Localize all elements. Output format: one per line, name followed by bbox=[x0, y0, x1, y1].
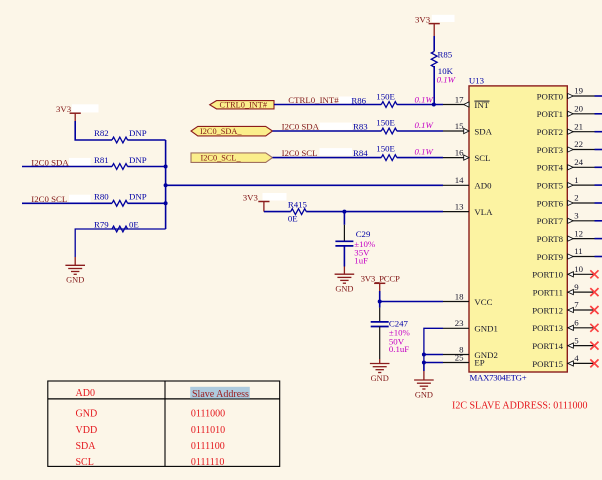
no-ERC X PORT14 bbox=[590, 342, 598, 350]
wire 3V3 to R415 bbox=[264, 211, 291, 213]
wire PORT5 bbox=[595, 184, 602, 186]
svg-text:2: 2 bbox=[574, 193, 578, 203]
pin 9 PORT11 bbox=[567, 291, 594, 293]
pin 19 PORT0 bbox=[567, 95, 594, 97]
wire PCCP to VCC bbox=[379, 291, 381, 302]
table slave address bbox=[48, 381, 280, 466]
svg-text:AD0: AD0 bbox=[474, 181, 492, 191]
wire R82 to bus bbox=[128, 139, 166, 141]
junction C29 bbox=[342, 210, 346, 214]
pin 16 SCL bbox=[443, 157, 469, 159]
svg-text:SCL: SCL bbox=[474, 153, 490, 163]
svg-text:GND1: GND1 bbox=[474, 324, 497, 334]
wire R84 to pin16 bbox=[397, 157, 443, 159]
svg-text:PORT6: PORT6 bbox=[537, 198, 564, 208]
svg-text:0111000: 0111000 bbox=[191, 409, 225, 420]
svg-text:0.1W: 0.1W bbox=[415, 95, 434, 105]
wire R79 gnd stem bbox=[74, 257, 76, 265]
svg-text:R79: R79 bbox=[94, 220, 109, 230]
svg-text:19: 19 bbox=[574, 86, 583, 96]
svg-text:AD0: AD0 bbox=[76, 388, 95, 399]
wire PORT9 bbox=[595, 256, 602, 258]
pin 4 PORT15 bbox=[567, 362, 594, 364]
svg-text:MAX7304ETG+: MAX7304ETG+ bbox=[470, 372, 527, 382]
wire R86 to pin17 bbox=[397, 104, 443, 106]
wire R81 to bus bbox=[128, 166, 166, 168]
svg-text:18: 18 bbox=[455, 291, 464, 301]
svg-text:PORT1: PORT1 bbox=[537, 109, 563, 119]
wire I2C0 SDA row bbox=[22, 166, 112, 168]
svg-text:GND: GND bbox=[335, 285, 353, 294]
svg-text:PORT9: PORT9 bbox=[537, 252, 564, 262]
wire PORT4 bbox=[595, 166, 602, 168]
port I2C0_SCL bbox=[191, 153, 273, 163]
capacitor C29 bbox=[343, 212, 345, 225]
pin 20 PORT1 bbox=[567, 113, 594, 115]
wire R83 to pin15 bbox=[397, 130, 443, 132]
svg-text:15: 15 bbox=[455, 121, 464, 131]
svg-text:PORT3: PORT3 bbox=[537, 145, 564, 155]
ground GND (left) bbox=[65, 264, 85, 266]
svg-text:0E: 0E bbox=[288, 214, 298, 224]
pin 23 GND1 bbox=[443, 327, 469, 329]
resistor R85 bbox=[431, 51, 437, 67]
svg-text:GND: GND bbox=[371, 374, 389, 383]
svg-text:PORT10: PORT10 bbox=[532, 270, 563, 280]
wire PORT2 bbox=[595, 131, 602, 133]
svg-text:22: 22 bbox=[574, 139, 583, 149]
svg-text:7: 7 bbox=[574, 300, 579, 310]
wire GND1 bbox=[424, 328, 443, 362]
pin 12 PORT8 bbox=[567, 238, 594, 240]
svg-text:17: 17 bbox=[455, 94, 464, 104]
svg-text:PORT15: PORT15 bbox=[532, 359, 563, 369]
svg-text:3V3_PCCP: 3V3_PCCP bbox=[361, 274, 400, 284]
svg-text:I2C0 SCL: I2C0 SCL bbox=[282, 148, 318, 158]
pin 21 PORT2 bbox=[567, 131, 594, 133]
svg-text:3: 3 bbox=[574, 211, 579, 221]
svg-text:I2C0_SCL_: I2C0_SCL_ bbox=[201, 154, 242, 163]
svg-text:PORT12: PORT12 bbox=[532, 305, 563, 315]
wire R415 to VLA pin13 bbox=[306, 211, 443, 213]
svg-text:9: 9 bbox=[574, 282, 579, 292]
svg-text:R83: R83 bbox=[353, 122, 368, 132]
wire PORT7 bbox=[595, 220, 602, 222]
pin 6 PORT13 bbox=[567, 327, 594, 329]
svg-text:0.1uF: 0.1uF bbox=[389, 344, 409, 354]
svg-text:R80: R80 bbox=[94, 192, 109, 202]
svg-text:SDA: SDA bbox=[474, 126, 492, 136]
svg-text:3V3: 3V3 bbox=[415, 14, 431, 24]
svg-text:PORT2: PORT2 bbox=[537, 127, 563, 137]
svg-text:4: 4 bbox=[574, 353, 579, 363]
no-ERC X PORT11 bbox=[590, 288, 598, 296]
svg-text:DNP: DNP bbox=[129, 128, 147, 138]
svg-text:I2C SLAVE ADDRESS: 0111000: I2C SLAVE ADDRESS: 0111000 bbox=[452, 400, 587, 411]
svg-text:Slave Address: Slave Address bbox=[192, 389, 249, 400]
svg-text:CTRL0_INT#: CTRL0_INT# bbox=[220, 100, 267, 109]
wire I2C0 SDA row mid bbox=[273, 130, 382, 132]
pin 5 PORT14 bbox=[567, 345, 594, 347]
wire PORT1 bbox=[595, 113, 602, 115]
wire EP bbox=[424, 362, 443, 364]
svg-text:VLA: VLA bbox=[474, 207, 493, 217]
svg-text:0E: 0E bbox=[129, 220, 139, 230]
svg-text:24: 24 bbox=[574, 157, 583, 167]
pin 10 PORT10 bbox=[567, 273, 594, 275]
svg-text:11: 11 bbox=[574, 246, 582, 256]
wire I2C0 SCL row bbox=[22, 202, 112, 204]
svg-text:25: 25 bbox=[455, 352, 464, 362]
wire C247 to gnd bbox=[379, 327, 381, 360]
svg-text:12: 12 bbox=[574, 228, 583, 238]
ground GND (EP) bbox=[414, 379, 434, 381]
wire AD0 net bbox=[166, 184, 443, 186]
pin 14 AD0 bbox=[443, 184, 469, 186]
pin 22 PORT3 bbox=[567, 149, 594, 151]
port CTRL0_INT# bbox=[210, 101, 274, 109]
wire PORT8 bbox=[595, 238, 602, 240]
wire CTRL0_INT# row bbox=[274, 104, 381, 106]
pin 18 VCC bbox=[443, 301, 469, 303]
pin 2 PORT6 bbox=[567, 202, 594, 204]
wire vertical bus bbox=[165, 140, 167, 229]
svg-text:150E: 150E bbox=[376, 91, 395, 101]
wire PORT0 bbox=[595, 95, 602, 97]
svg-text:U13: U13 bbox=[469, 75, 485, 85]
pin 1 PORT5 bbox=[567, 184, 594, 186]
pin 7 PORT12 bbox=[567, 309, 594, 311]
no-ERC X PORT15 bbox=[590, 359, 598, 367]
wire R80 to bus bbox=[128, 202, 166, 204]
capacitor C247 bbox=[379, 302, 381, 308]
svg-text:21: 21 bbox=[574, 121, 583, 131]
svg-text:6: 6 bbox=[574, 318, 579, 328]
svg-text:PORT5: PORT5 bbox=[537, 181, 564, 191]
wire I2C0 SCL row mid bbox=[273, 157, 382, 159]
svg-text:PORT13: PORT13 bbox=[532, 323, 563, 333]
svg-text:DNP: DNP bbox=[129, 192, 147, 202]
svg-text:10: 10 bbox=[574, 264, 583, 274]
no-ERC X PORT10 bbox=[590, 270, 598, 278]
svg-text:VCC: VCC bbox=[474, 297, 492, 307]
wire R85 to junction bbox=[433, 66, 435, 105]
svg-text:1: 1 bbox=[574, 175, 578, 185]
svg-text:20: 20 bbox=[574, 104, 583, 114]
port I2C0_SDA_ bbox=[191, 126, 273, 135]
no-ERC X PORT12 bbox=[590, 306, 598, 314]
pin 15 SDA bbox=[443, 130, 469, 132]
pin 24 PORT4 bbox=[567, 166, 594, 168]
op IC U13 MAX7304ETG+ body bbox=[469, 86, 567, 372]
wire 3V3 to R85 bbox=[433, 36, 435, 51]
junction dots bus bbox=[164, 165, 168, 169]
wire EP to gnd bbox=[423, 363, 425, 372]
svg-text:0111010: 0111010 bbox=[191, 425, 225, 436]
svg-text:13: 13 bbox=[455, 201, 464, 211]
svg-text:PORT7: PORT7 bbox=[537, 216, 564, 226]
wire 3V3 to R82 row bbox=[75, 121, 112, 140]
svg-text:PORT4: PORT4 bbox=[537, 163, 564, 173]
svg-text:0.1W: 0.1W bbox=[415, 146, 434, 156]
svg-text:3V3: 3V3 bbox=[56, 104, 72, 114]
svg-text:PORT11: PORT11 bbox=[533, 288, 563, 298]
wire C29 to gnd bbox=[343, 246, 345, 266]
pin 13 VLA bbox=[443, 211, 469, 213]
svg-text:R85: R85 bbox=[438, 50, 453, 60]
svg-text:0111110: 0111110 bbox=[191, 457, 225, 468]
svg-text:0.1W: 0.1W bbox=[415, 120, 434, 130]
wire R79 row bbox=[75, 229, 165, 257]
svg-text:EP: EP bbox=[474, 358, 484, 368]
svg-text:1uF: 1uF bbox=[354, 256, 368, 266]
svg-text:5: 5 bbox=[574, 335, 579, 345]
wire GND2 bbox=[424, 354, 443, 356]
svg-text:R84: R84 bbox=[353, 148, 368, 158]
svg-text:16: 16 bbox=[455, 147, 464, 157]
svg-text:PORT8: PORT8 bbox=[537, 234, 564, 244]
pin 25 EP bbox=[443, 362, 469, 364]
ground GND (C29) bbox=[335, 273, 355, 275]
pin 3 PORT7 bbox=[567, 220, 594, 222]
pin 8 GND2 bbox=[443, 354, 469, 356]
svg-text:R82: R82 bbox=[94, 128, 109, 138]
svg-text:SDA: SDA bbox=[76, 441, 97, 452]
svg-text:14: 14 bbox=[455, 175, 464, 185]
svg-text:3V3: 3V3 bbox=[243, 192, 259, 202]
svg-text:150E: 150E bbox=[376, 143, 395, 153]
wire PORT3 bbox=[595, 149, 602, 151]
svg-text:R81: R81 bbox=[94, 155, 109, 165]
svg-text:DNP: DNP bbox=[129, 155, 147, 165]
svg-text:GND: GND bbox=[66, 276, 84, 285]
svg-text:PORT0: PORT0 bbox=[537, 91, 564, 101]
svg-text:0111100: 0111100 bbox=[191, 441, 225, 452]
pin 17 INT bbox=[443, 104, 469, 106]
svg-text:GND: GND bbox=[415, 390, 433, 399]
svg-text:SCL: SCL bbox=[76, 457, 94, 468]
junction R85/pin17 bbox=[432, 103, 436, 107]
svg-text:23: 23 bbox=[455, 318, 464, 328]
svg-text:150E: 150E bbox=[376, 117, 395, 127]
no-ERC X PORT13 bbox=[590, 324, 598, 332]
svg-text:0.1W: 0.1W bbox=[437, 74, 456, 84]
svg-text:I2C0_SDA_: I2C0_SDA_ bbox=[200, 127, 242, 136]
svg-text:GND: GND bbox=[76, 409, 98, 420]
ground GND (C247) bbox=[370, 363, 390, 365]
svg-text:R86: R86 bbox=[351, 96, 366, 106]
svg-text:VDD: VDD bbox=[76, 425, 98, 436]
svg-text:PORT14: PORT14 bbox=[532, 341, 563, 351]
pin 11 PORT9 bbox=[567, 256, 594, 258]
svg-text:C29: C29 bbox=[356, 229, 371, 239]
wire PORT6 bbox=[595, 202, 602, 204]
